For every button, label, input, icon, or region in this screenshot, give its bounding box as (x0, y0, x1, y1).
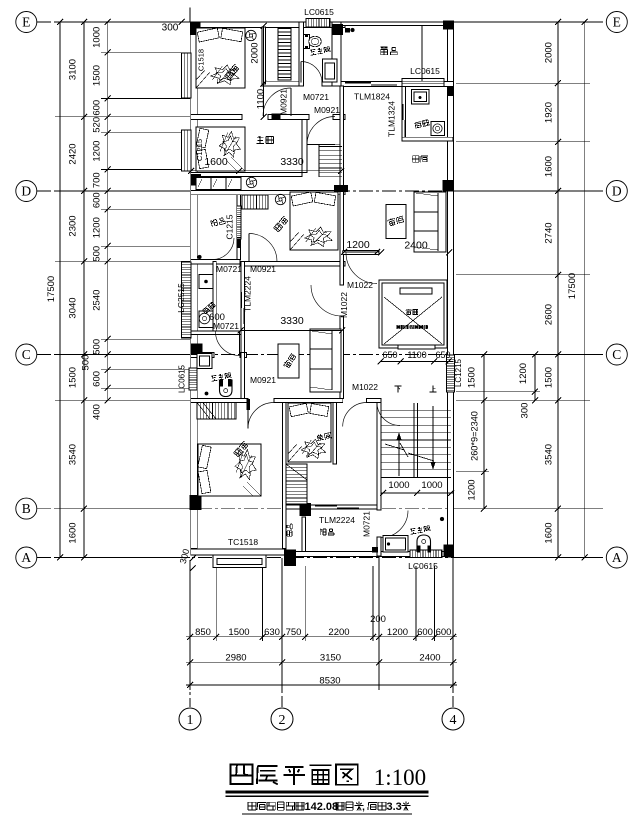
right dim total line (584, 22, 586, 558)
window seat master (196, 178, 241, 190)
title underline thin (225, 795, 428, 797)
right dim extension line (456, 274, 590, 276)
bottom dim extension line (189, 560, 191, 690)
svg-text:300: 300 (520, 403, 531, 419)
svg-text:1200: 1200 (518, 363, 529, 384)
grid bubble 4 bottom (442, 708, 464, 730)
right stair chain tick (481, 506, 487, 512)
svg-text:TLM1324: TLM1324 (387, 101, 397, 137)
door M0921 master (307, 144, 335, 146)
svg-text:3040: 3040 (68, 297, 79, 318)
elevator X cross (384, 297, 442, 344)
left dim extension line (55, 21, 190, 23)
sliding door TLM1324 (402, 104, 404, 120)
left chain tick (81, 188, 87, 194)
svg-text:1500: 1500 (467, 367, 478, 388)
svg-text:A: A (21, 550, 31, 565)
wall stair west seg2 (377, 537, 381, 556)
window LC1215 right stair (447, 355, 455, 392)
grid bubble B left (16, 498, 37, 519)
svg-text:1500: 1500 (544, 367, 555, 388)
dim line 1200 bedroom2 (342, 251, 379, 253)
door jamb y117 (272, 114, 281, 119)
wall stair west seg1 (377, 403, 381, 511)
svg-text:500: 500 (92, 246, 103, 262)
bathtub bath3 (383, 536, 408, 553)
door M1022 unit entry (311, 285, 342, 316)
bottom group tick (279, 659, 285, 665)
wall y505 bottom hall (286, 505, 381, 509)
door M0921 bedroom4 (247, 403, 249, 429)
dim line 2000/1100 interior (263, 26, 265, 117)
grid line 4 (452, 558, 454, 707)
title 四层平面图 (231, 764, 358, 784)
left total ticks (57, 19, 63, 25)
room label master (256, 136, 273, 144)
subtitle underline (242, 813, 412, 815)
wall master bottom (191, 173, 302, 177)
sofa living left (310, 329, 341, 392)
left dim extension line (101, 52, 190, 54)
window LC2515 kitchen left (182, 262, 192, 338)
wall y117 seg3 (333, 115, 345, 120)
room label terrace (381, 47, 398, 55)
right dim extension line (456, 354, 590, 356)
grid line A (37, 557, 606, 559)
terrace deck line (421, 26, 423, 81)
bed master (196, 127, 245, 171)
left dim total line (59, 22, 61, 558)
wall bath/terrace y84 seg1 (262, 81, 301, 86)
svg-text:1200: 1200 (92, 217, 103, 238)
toilet bath top (304, 35, 310, 49)
svg-text:1000: 1000 (388, 480, 409, 491)
room label bath top (310, 46, 330, 55)
room label room3 (316, 432, 332, 441)
svg-text:750: 750 (286, 627, 302, 638)
dot kitchen2 (198, 255, 202, 259)
elevator door rect (400, 288, 432, 294)
svg-text:C: C (22, 347, 31, 362)
svg-text:3540: 3540 (68, 444, 79, 465)
wall row C left seg1 (191, 353, 214, 358)
toilet bath2 (220, 379, 223, 387)
wall balcony bottom left (191, 260, 240, 265)
column x342xC (332, 339, 342, 354)
svg-text:M1022: M1022 (352, 382, 378, 392)
stair landing line (307, 144, 342, 146)
grid bubble A right (606, 547, 627, 568)
dim ticks master 1600/3330 (191, 170, 341, 172)
bay window TC1518 outer (213, 555, 266, 568)
room label living right (387, 215, 404, 226)
bottom chain tick (302, 634, 308, 640)
room label kitchen1 (415, 120, 430, 129)
room label balcony1 (211, 217, 226, 227)
right dim chain line (557, 22, 559, 558)
wall top-left exterior (191, 22, 345, 28)
right dim extension line (456, 391, 540, 393)
wall y400 seg3 (367, 399, 382, 403)
right chain tick (555, 352, 561, 358)
sink bath top (323, 59, 338, 82)
door jamb bedroom4 (247, 399, 251, 410)
left inner chain tick (105, 96, 111, 102)
wall stair south (381, 477, 451, 479)
bottom chain tick (279, 634, 285, 640)
svg-text:600: 600 (92, 100, 103, 116)
svg-text:1000: 1000 (92, 27, 103, 48)
window LC0615 bath2 left (189, 368, 197, 390)
grid bubble 2 bottom (271, 708, 293, 730)
svg-text:E: E (613, 15, 621, 30)
left dim extension line (55, 508, 190, 510)
toilet bath3 (417, 546, 420, 553)
svg-text:2000: 2000 (250, 42, 261, 63)
svg-text:260*9=2340: 260*9=2340 (470, 411, 480, 461)
door room3 (343, 403, 367, 427)
svg-text:B: B (22, 501, 31, 516)
bottom chain tick (187, 634, 193, 640)
door M0921 room2 (290, 88, 292, 116)
right dim extension line (456, 399, 590, 401)
right sub chain tick (532, 389, 538, 395)
stair arrow down (432, 406, 434, 468)
svg-text:650: 650 (435, 350, 450, 360)
left dim extension line (55, 260, 190, 262)
right dim sub chain line (534, 355, 536, 401)
svg-text:400: 400 (92, 404, 103, 420)
svg-text:C1518: C1518 (197, 49, 206, 71)
left dim extension line (101, 208, 190, 210)
bottom chain tick (450, 634, 456, 640)
bottom total ticks (187, 682, 193, 688)
wall row C left seg2 (240, 353, 247, 358)
door M0721 balcony (213, 238, 235, 260)
column col1xC (191, 344, 203, 356)
column col4 kitchen top (447, 87, 453, 97)
right dim extension line (456, 471, 489, 473)
left chain tick (81, 555, 87, 561)
column x342xD (334, 185, 348, 192)
table living left (278, 344, 299, 378)
svg-text:17500: 17500 (567, 273, 578, 299)
fan master strip (246, 177, 256, 187)
room label kitchen2 (202, 302, 215, 314)
table living right (386, 205, 406, 239)
wall terrace bottom (341, 82, 454, 87)
dim ticks 2400 living (378, 250, 384, 256)
svg-text:17500: 17500 (46, 276, 57, 302)
svg-text:M0721: M0721 (303, 92, 329, 102)
svg-text:200: 200 (370, 614, 386, 625)
left dim extension line (55, 354, 190, 356)
column x305xB (299, 503, 311, 516)
svg-text:3330: 3330 (280, 156, 304, 168)
left chain tick (81, 397, 87, 403)
svg-text:M0721: M0721 (216, 264, 242, 274)
bottom chain tick (376, 634, 382, 640)
grid bubble C right (606, 344, 627, 365)
wall y400 seg1 (191, 399, 248, 403)
wall balcony right upper (237, 195, 241, 206)
wall y261 mid (240, 262, 345, 267)
left inner chain tick (105, 243, 111, 249)
sink bath2 (197, 354, 212, 369)
svg-text:1500: 1500 (68, 367, 79, 388)
sink kitchen2 (199, 311, 213, 328)
left inner chain tick (105, 385, 111, 391)
wall unit divider x342 seg2 (340, 316, 344, 399)
left chain tick (81, 258, 87, 264)
right chain tick (555, 19, 561, 25)
svg-text:C: C (612, 347, 621, 362)
fan bedroom2 (275, 194, 285, 204)
label up (430, 386, 437, 392)
right dim stair chain line (483, 355, 485, 509)
stair dim line 1000+1000 (381, 492, 453, 494)
svg-text:1200: 1200 (467, 479, 478, 500)
svg-text:E: E (22, 15, 30, 30)
svg-text:LC0615: LC0615 (410, 66, 440, 76)
left inner chain tick (105, 50, 111, 56)
grid stub col1 top (189, 8, 191, 23)
svg-text:2540: 2540 (92, 290, 103, 311)
room label living left (283, 353, 297, 369)
svg-text:C1215: C1215 (195, 139, 204, 161)
svg-text:1920: 1920 (544, 102, 555, 123)
right dim extension line (456, 141, 590, 143)
left chain tick (81, 19, 87, 25)
svg-text:2980: 2980 (225, 653, 246, 664)
left chain tick (81, 352, 87, 358)
svg-text:C1215: C1215 (225, 214, 235, 239)
bed room3 (288, 403, 331, 462)
svg-text:500: 500 (81, 355, 92, 371)
bottom group tick (450, 659, 456, 665)
wall y117 seg1 (191, 115, 242, 120)
svg-text:3330: 3330 (280, 315, 304, 327)
right chain tick (555, 506, 561, 512)
svg-text:A: A (612, 550, 622, 565)
post terrace (345, 28, 350, 33)
wall terrace top parapet (341, 22, 454, 26)
wall balcony3 left (302, 517, 306, 552)
wall row D (191, 191, 345, 195)
svg-text:M0921: M0921 (250, 375, 276, 385)
door hall M0721 (239, 332, 241, 356)
wall kitchen bottom right (402, 137, 453, 141)
wall bedroom4 right (283, 403, 287, 549)
left dim extension line (55, 557, 190, 559)
svg-text:M1022: M1022 (347, 280, 373, 290)
left dim extension line (101, 132, 190, 134)
left inner chain tick (105, 206, 111, 212)
left dim extension line (101, 387, 190, 389)
door M1022 living right (346, 253, 377, 284)
wall left exterior (191, 22, 197, 549)
left inner chain tick (105, 397, 111, 403)
svg-text:D: D (612, 184, 622, 199)
window LC0615 terrace (402, 79, 444, 87)
room label bedroom1 (224, 64, 239, 80)
window TC1215 master left (182, 130, 192, 171)
door M1022 stair hall (377, 403, 400, 426)
left inner chain tick (105, 367, 111, 373)
grid bubble D left (16, 181, 37, 202)
door M0921 bedroom2 (248, 234, 250, 262)
svg-text:3.3: 3.3 (387, 801, 402, 813)
bottom dim extension line (262, 566, 264, 641)
wall balcony right lower (237, 239, 241, 260)
svg-text:3540: 3540 (544, 444, 555, 465)
right dim extension line (456, 508, 590, 510)
grid line 1 (189, 560, 191, 707)
door jamb balcony (237, 239, 240, 248)
svg-text:M0721: M0721 (362, 511, 372, 537)
svg-text:300: 300 (162, 23, 179, 34)
svg-text:1500: 1500 (228, 627, 249, 638)
svg-text:2400: 2400 (419, 653, 440, 664)
wall bath2 right (241, 353, 245, 399)
svg-text:1200: 1200 (346, 239, 370, 251)
left dim extension line (101, 338, 190, 340)
bottom dim extension line (415, 566, 417, 641)
grid line B (37, 508, 606, 510)
bottom chain tick (370, 634, 376, 640)
room label balcony3 (320, 529, 334, 535)
svg-text:TC1518: TC1518 (228, 537, 259, 547)
svg-text:1: 1 (187, 713, 194, 728)
svg-text:D: D (21, 184, 31, 199)
wall bath/terrace y84 seg2 (322, 81, 345, 86)
door M0721 bath top (300, 62, 302, 83)
bottom dim group line (186, 661, 457, 663)
wardrobe bedroom4 (197, 403, 236, 420)
left dim extension line (101, 98, 190, 100)
column col1xB (190, 495, 202, 510)
wardrobe bedroom2 (242, 195, 268, 209)
svg-text:2000: 2000 (544, 42, 555, 63)
right chain tick (555, 139, 561, 145)
svg-text:2740: 2740 (544, 222, 555, 243)
wall bedroom1 right (262, 27, 266, 84)
svg-text:1100: 1100 (256, 89, 267, 109)
dim ticks room33 3330 (241, 330, 343, 332)
elevator sill (398, 345, 435, 349)
column col1xD (191, 174, 202, 185)
wall kitchen2 right (241, 262, 245, 353)
dot terrace (351, 28, 355, 32)
right sub chain tick (532, 397, 538, 403)
svg-text:LC0615: LC0615 (408, 561, 438, 571)
svg-text:TLM2224: TLM2224 (319, 515, 355, 525)
svg-text:1:100: 1:100 (374, 765, 426, 790)
wall unit divider x342 seg1 (340, 86, 344, 285)
wall room3 right (333, 403, 337, 465)
grid bubble D right (606, 181, 627, 202)
room label bath3 (410, 525, 430, 534)
grid line D (37, 190, 606, 192)
svg-text:1600: 1600 (68, 522, 79, 543)
svg-text:600: 600 (92, 192, 103, 208)
svg-text:LC2515: LC2515 (176, 283, 186, 313)
wall bath top right (332, 22, 341, 86)
sliding door TLM2224 bottom (315, 505, 337, 507)
stair arrow up (398, 434, 400, 476)
svg-text:TLM2224: TLM2224 (243, 276, 253, 312)
grid bubble 1 bottom (179, 708, 201, 730)
right chain tick (555, 80, 561, 86)
room label dining (412, 156, 428, 163)
bed bedroom1 (196, 28, 245, 88)
bottom chain tick (413, 634, 419, 640)
svg-text:M0921: M0921 (279, 89, 289, 115)
room label bedroom4 (233, 441, 248, 457)
sliding door TLM2224 mid (241, 292, 243, 308)
left dim inner chain line (107, 22, 109, 400)
svg-text:700: 700 (92, 172, 103, 188)
window LC0615 bath top (306, 19, 330, 28)
room label bedroom2 (273, 216, 288, 232)
sofa living right (414, 192, 446, 252)
column col4xD (443, 180, 454, 192)
wall bottom-left exterior (191, 549, 286, 555)
bottom dim extension line (304, 566, 306, 641)
svg-text:4: 4 (450, 713, 457, 728)
svg-text:2600: 2600 (544, 304, 555, 325)
left dim extension line (55, 116, 190, 118)
bottom group tick (187, 659, 193, 665)
svg-text:LC1215: LC1215 (454, 358, 463, 387)
bed bedroom4 (198, 444, 261, 496)
wall y117 seg2 (268, 115, 309, 120)
window TC1518 bedroom1 left (182, 53, 192, 98)
right sub chain tick (532, 352, 538, 358)
svg-text:M0921: M0921 (314, 105, 340, 115)
stair break line (385, 443, 434, 461)
stove kitchen1 (431, 122, 445, 136)
svg-text:142.08: 142.08 (305, 801, 339, 813)
sink kitchen1 (412, 90, 430, 105)
right dim extension line (456, 21, 590, 23)
svg-text:630: 630 (264, 627, 280, 638)
wall right exterior (448, 22, 454, 557)
left inner chain tick (105, 19, 111, 25)
bottom dim total line (186, 684, 457, 686)
svg-text:1200: 1200 (92, 141, 103, 162)
svg-text:1600: 1600 (544, 522, 555, 543)
wall master right (302, 120, 307, 173)
right dim extension line (456, 190, 590, 192)
right chain tick (555, 555, 561, 561)
wardrobe room2 (278, 29, 291, 81)
svg-text:3150: 3150 (320, 653, 341, 664)
bottom chain tick (213, 634, 219, 640)
left dim extension line (55, 399, 190, 401)
left dim chain line (83, 22, 85, 558)
svg-text:650: 650 (382, 350, 397, 360)
wall y331 hall (191, 331, 245, 335)
left inner chain tick (105, 258, 111, 264)
svg-text:,: , (362, 802, 365, 813)
left inner chain tick (105, 114, 111, 120)
left chain tick (81, 506, 87, 512)
window LC1215 balcony (237, 206, 241, 239)
elevator shaft inner (382, 283, 444, 345)
left inner chain tick (105, 336, 111, 342)
room label balcony3s (287, 524, 292, 536)
